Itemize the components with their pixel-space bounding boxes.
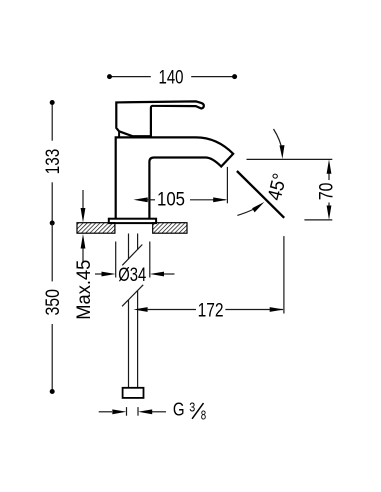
pipe break slash lower <box>122 285 143 307</box>
dimension 105 line <box>134 197 228 202</box>
dimension 350 line <box>51 223 53 392</box>
dimension 140 line <box>110 76 235 78</box>
70 reference top line <box>247 158 333 160</box>
deck right hatched <box>153 223 187 234</box>
svg-text:172: 172 <box>198 299 224 321</box>
svg-text:140: 140 <box>159 66 184 88</box>
dia 34 extension lines <box>116 242 150 278</box>
faucet body and spout outline <box>116 137 234 219</box>
G3/8 right arrow <box>138 409 166 414</box>
dimension 133 end dots <box>50 100 55 105</box>
dimension 172 line <box>133 307 284 312</box>
spout outlet extension line <box>226 167 228 203</box>
handle base triangle line <box>118 131 120 137</box>
dia 34 left arrow <box>95 272 116 277</box>
dimension 140 end dots <box>107 74 112 79</box>
dimension 350 end dot <box>50 389 55 394</box>
base flange <box>109 219 156 223</box>
svg-text:105: 105 <box>157 189 185 211</box>
deck left hatched <box>77 223 115 234</box>
faucet handle lever <box>116 101 204 136</box>
pipe break slash upper <box>122 245 142 266</box>
svg-text:8: 8 <box>201 409 206 423</box>
svg-text:350: 350 <box>42 289 64 316</box>
supply pipe right line <box>137 234 139 388</box>
jet end extension line <box>283 236 285 313</box>
supply pipe left line <box>128 234 130 388</box>
dimension 133 line <box>51 103 53 224</box>
G3/8 label <box>173 399 206 423</box>
svg-text:70: 70 <box>316 183 338 201</box>
Max.45 lower arrow <box>81 234 86 263</box>
svg-text:G: G <box>173 399 185 420</box>
dia 34 right arrow <box>150 272 175 277</box>
G3/8 connector block <box>123 388 144 398</box>
angle leader upper <box>274 129 285 159</box>
45 degree jet line <box>237 171 284 218</box>
svg-text:3: 3 <box>189 400 195 414</box>
dimension 70 line <box>327 159 332 220</box>
G3/8 left arrow <box>99 409 127 414</box>
G3/8 dimension ticks <box>127 407 139 416</box>
svg-text:Ø34: Ø34 <box>118 264 146 286</box>
svg-text:Max.45: Max.45 <box>73 260 95 320</box>
Max.45 upper arrow <box>81 190 86 223</box>
angle leader lower <box>237 202 264 216</box>
70 reference bottom line <box>304 219 332 221</box>
svg-text:133: 133 <box>42 149 64 175</box>
